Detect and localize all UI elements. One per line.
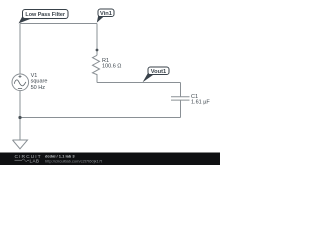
svg-text:Vin1: Vin1 [100,11,112,17]
svg-text:Low Pass Filter: Low Pass Filter [25,12,65,18]
svg-text:Vout1: Vout1 [151,69,166,75]
svg-text:square: square [31,79,48,85]
svg-text:50 Hz: 50 Hz [31,85,46,91]
svg-text:LAB: LAB [30,158,40,163]
svg-text:1.61 µF: 1.61 µF [191,99,210,105]
svg-text:http://circuitlab.com/c2t7t60j: http://circuitlab.com/c2t7t60jk17t [45,158,103,163]
svg-text:100.6 Ω: 100.6 Ω [102,64,121,70]
